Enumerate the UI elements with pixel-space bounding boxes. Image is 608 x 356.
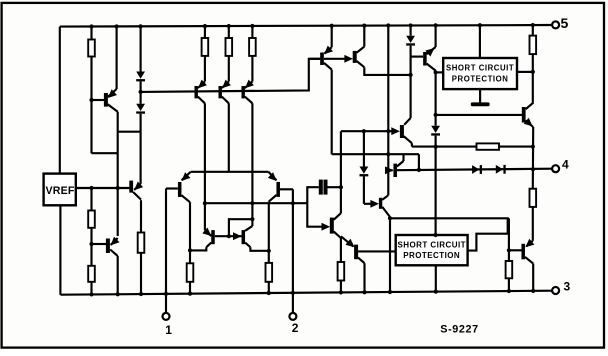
svg-text:SHORT CIRCUIT: SHORT CIRCUIT bbox=[446, 64, 514, 73]
svg-text:4: 4 bbox=[562, 157, 569, 171]
svg-text:S-9227: S-9227 bbox=[440, 324, 478, 336]
svg-text:3: 3 bbox=[564, 280, 571, 294]
svg-text:PROTECTION: PROTECTION bbox=[452, 74, 509, 83]
svg-text:5: 5 bbox=[561, 15, 569, 31]
svg-text:2: 2 bbox=[292, 321, 299, 335]
svg-text:PROTECTION: PROTECTION bbox=[403, 251, 460, 260]
svg-text:1: 1 bbox=[165, 323, 172, 337]
svg-text:SHORT CIRCUIT: SHORT CIRCUIT bbox=[397, 241, 466, 250]
svg-text:VREF: VREF bbox=[45, 185, 74, 197]
